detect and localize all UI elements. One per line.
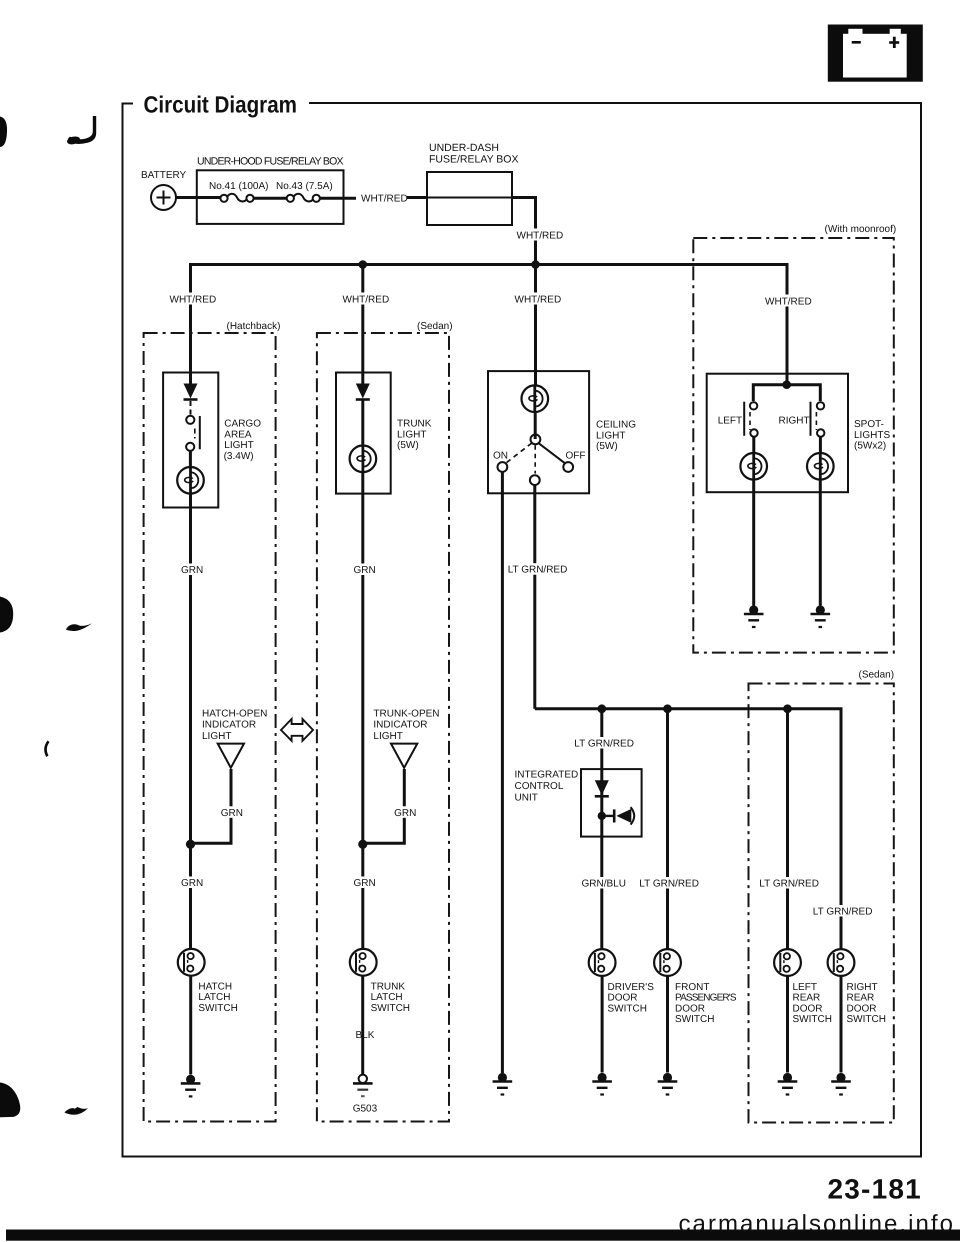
svg-text:SWITCH: SWITCH — [371, 1003, 410, 1014]
svg-text:(Sedan): (Sedan) — [417, 321, 453, 332]
svg-text:G503: G503 — [353, 1104, 378, 1115]
svg-text:HATCH: HATCH — [198, 981, 232, 992]
svg-text:WHT/RED: WHT/RED — [343, 295, 390, 306]
svg-text:DRIVER'S: DRIVER'S — [608, 982, 655, 993]
svg-text:TRUNK: TRUNK — [371, 981, 406, 992]
svg-text:LATCH: LATCH — [198, 992, 230, 1003]
svg-text:LIGHT: LIGHT — [224, 440, 253, 451]
svg-text:SPOT-: SPOT- — [854, 419, 884, 430]
svg-text:LIGHT: LIGHT — [397, 429, 426, 440]
svg-text:SWITCH: SWITCH — [675, 1014, 714, 1025]
svg-text:UNIT: UNIT — [515, 793, 538, 804]
svg-text:WHT/RED: WHT/RED — [170, 295, 217, 306]
svg-text:UNDER-HOOD FUSE/RELAY BOX: UNDER-HOOD FUSE/RELAY BOX — [197, 156, 344, 168]
svg-text:WHT/RED: WHT/RED — [515, 295, 562, 306]
svg-text:SWITCH: SWITCH — [608, 1003, 647, 1014]
svg-text:GRN: GRN — [181, 878, 203, 889]
svg-text:(5W): (5W) — [596, 441, 618, 452]
svg-text:TRUNK-OPEN: TRUNK-OPEN — [373, 709, 439, 720]
svg-text:No.43 (7.5A): No.43 (7.5A) — [276, 181, 333, 192]
svg-text:LATCH: LATCH — [371, 992, 403, 1003]
svg-text:23-181: 23-181 — [828, 1174, 922, 1205]
svg-text:REAR: REAR — [793, 993, 821, 1004]
svg-text:LIGHT: LIGHT — [202, 731, 231, 742]
svg-text:WHT/RED: WHT/RED — [361, 194, 408, 205]
svg-text:(3.4W): (3.4W) — [224, 451, 254, 462]
svg-text:LIGHT: LIGHT — [373, 731, 402, 742]
svg-text:ON: ON — [493, 451, 508, 462]
svg-text:GRN: GRN — [394, 808, 416, 819]
svg-text:LIGHT: LIGHT — [596, 430, 625, 441]
svg-text:GRN: GRN — [221, 808, 243, 819]
svg-text:INTEGRATED: INTEGRATED — [515, 770, 579, 781]
svg-text:LT GRN/RED: LT GRN/RED — [508, 565, 568, 576]
svg-text:INDICATOR: INDICATOR — [373, 720, 427, 731]
svg-text:UNDER-DASH: UNDER-DASH — [429, 142, 499, 154]
svg-text:LT GRN/RED: LT GRN/RED — [574, 739, 634, 750]
svg-text:BATTERY: BATTERY — [141, 170, 187, 181]
svg-text:REAR: REAR — [847, 993, 875, 1004]
svg-text:carmanualsonline.info: carmanualsonline.info — [679, 1211, 956, 1238]
svg-text:(5W): (5W) — [397, 440, 419, 451]
svg-text:WHT/RED: WHT/RED — [765, 297, 812, 308]
svg-text:BLK: BLK — [356, 1030, 375, 1041]
svg-text:SWITCH: SWITCH — [198, 1003, 237, 1014]
svg-text:LEFT: LEFT — [718, 416, 742, 427]
svg-text:Circuit Diagram: Circuit Diagram — [144, 92, 298, 118]
svg-text:DOOR: DOOR — [675, 1003, 705, 1014]
svg-text:CARGO: CARGO — [224, 419, 261, 430]
svg-text:PASSENGER'S: PASSENGER'S — [675, 993, 737, 1004]
svg-text:LIGHTS: LIGHTS — [854, 430, 890, 441]
svg-text:WHT/RED: WHT/RED — [517, 231, 564, 242]
svg-text:(With moonroof): (With moonroof) — [825, 224, 897, 235]
svg-text:LT GRN/RED: LT GRN/RED — [759, 879, 819, 890]
svg-text:RIGHT: RIGHT — [779, 416, 810, 427]
svg-text:GRN: GRN — [354, 878, 376, 889]
svg-text:GRN: GRN — [354, 565, 376, 576]
svg-text:FUSE/RELAY BOX: FUSE/RELAY BOX — [429, 154, 518, 166]
svg-text:(Sedan): (Sedan) — [859, 670, 895, 681]
svg-text:FRONT: FRONT — [675, 982, 709, 993]
svg-text:No.41 (100A): No.41 (100A) — [209, 181, 268, 192]
svg-text:DOOR: DOOR — [847, 1003, 877, 1014]
svg-text:DOOR: DOOR — [793, 1003, 823, 1014]
svg-text:OFF: OFF — [566, 451, 586, 462]
svg-text:GRN: GRN — [181, 565, 203, 576]
svg-text:LEFT: LEFT — [793, 982, 817, 993]
svg-text:CEILING: CEILING — [596, 420, 636, 431]
svg-text:TRUNK: TRUNK — [397, 419, 432, 430]
svg-text:RIGHT: RIGHT — [847, 982, 878, 993]
svg-text:CONTROL: CONTROL — [515, 781, 564, 792]
svg-text:SWITCH: SWITCH — [793, 1014, 832, 1025]
svg-text:GRN/BLU: GRN/BLU — [582, 879, 626, 890]
svg-text:AREA: AREA — [224, 429, 252, 440]
svg-text:LT GRN/RED: LT GRN/RED — [813, 907, 873, 918]
svg-text:HATCH-OPEN: HATCH-OPEN — [202, 709, 267, 720]
svg-text:DOOR: DOOR — [608, 993, 638, 1004]
svg-text:SWITCH: SWITCH — [847, 1014, 886, 1025]
svg-text:INDICATOR: INDICATOR — [202, 720, 256, 731]
svg-text:(5Wx2): (5Wx2) — [854, 441, 886, 452]
svg-text:(Hatchback): (Hatchback) — [227, 321, 281, 332]
svg-text:LT GRN/RED: LT GRN/RED — [639, 879, 699, 890]
